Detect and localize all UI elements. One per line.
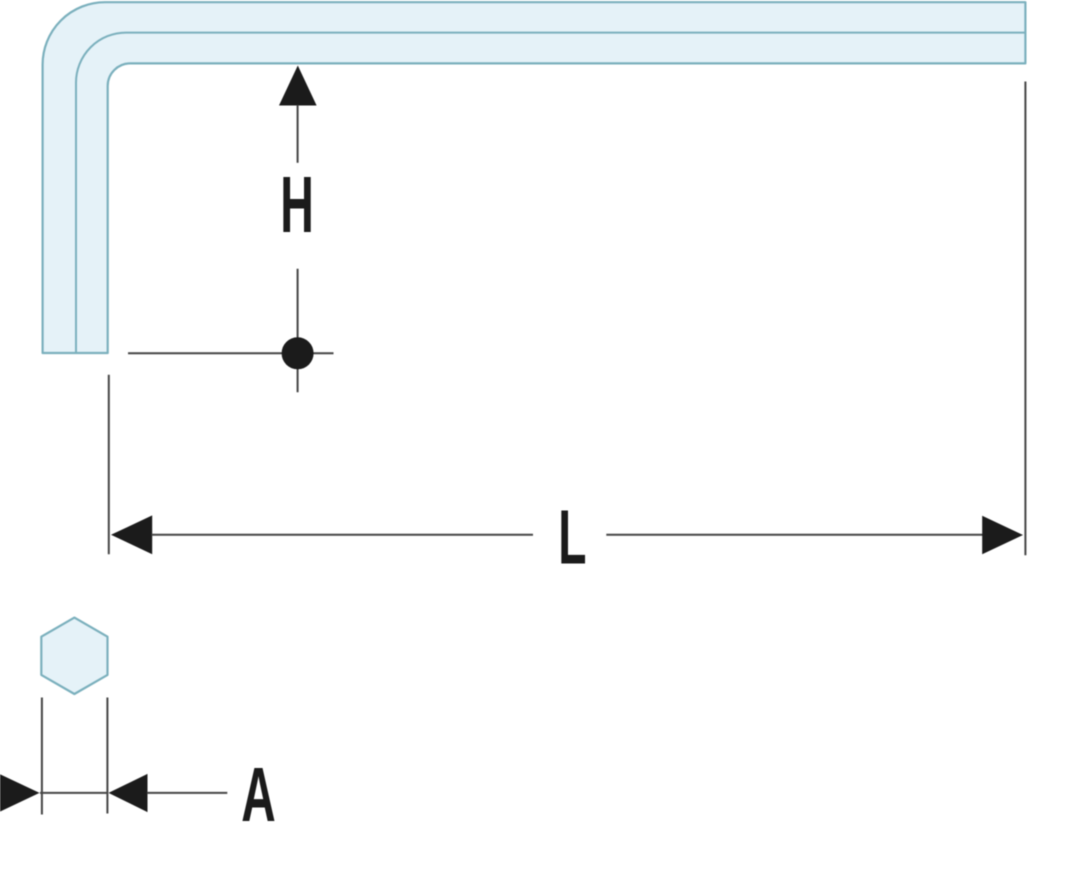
dimension L left arrowhead [111,515,152,554]
dimension L line left segment [152,534,534,536]
dimension L right arrowhead [982,516,1023,555]
dimension A connecting line between extension lines [40,792,108,794]
dimension A line right segment [147,792,227,794]
dimension L line right segment [606,534,983,536]
dimension H line upper segment [297,105,299,163]
dimension H arrowhead (up) [279,66,317,106]
hex cross-section (A view) [41,618,107,694]
extension line left (dimension A) [41,698,43,815]
extension line left (dimension L) [108,375,110,554]
bend centre horizontal crosshair line [128,352,334,354]
extension line right (dimension A) [106,698,108,814]
extension line right (dimension L) [1024,82,1026,556]
dimension H line lower segment [297,269,299,393]
dimension A left arrowhead (clipped at page edge) [0,774,40,812]
dimension A right arrowhead [109,774,148,812]
svg-text:H: H [280,160,314,249]
bend centre dot [282,337,314,369]
svg-text:A: A [241,751,275,838]
hex key facet middle line [76,33,1025,353]
hex key body (L-shaped allen key silhouette) [43,2,1026,353]
svg-text:L: L [558,495,586,580]
